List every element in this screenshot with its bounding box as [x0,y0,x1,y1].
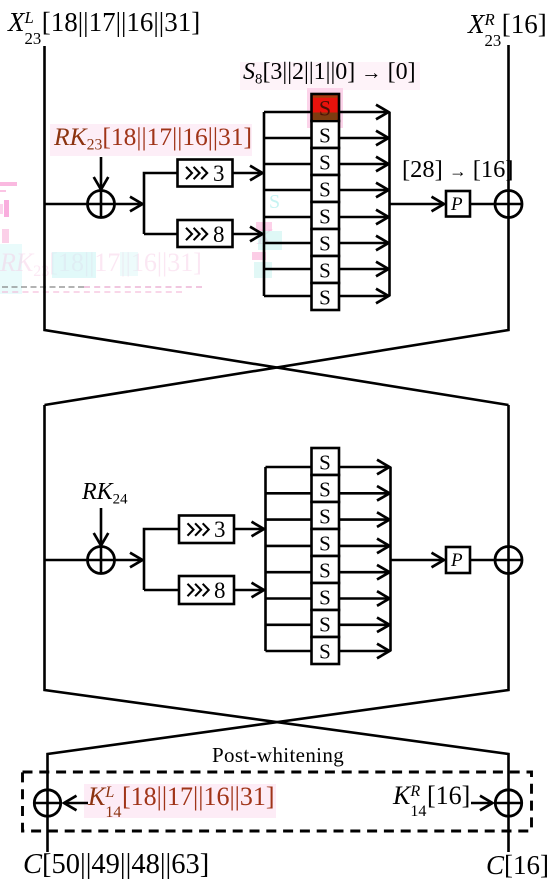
wire sbox row 1 out arrow round1 [339,111,389,114]
svg-text:S: S [319,286,331,310]
wire sbox row 4 in round2 [266,545,312,548]
box P round1 [446,191,470,217]
ghost artifact pink tick [0,190,6,192]
wire sbox row 7 in round2 [266,623,312,626]
svg-text:S: S [319,151,331,175]
svg-text:S: S [319,586,331,610]
svg-text:S: S [319,532,331,556]
label C right output [486,852,549,879]
wire sbox row 3 in round1 [264,163,312,166]
wire round1 main row through xor [45,203,115,206]
wire rot8 to sbus round1 [233,233,263,236]
sbox S13 round2 [312,556,340,583]
pink halo around red S box [307,88,343,128]
svg-text:S: S [319,96,331,121]
pink banding behind S8 label [240,62,420,90]
wire bracket to P round2 [391,559,445,562]
wire round2 branch vertical [144,529,179,590]
ghost text row pink RK[18||17||16||31] [0,250,202,276]
wire sbox row 5 in round1 [264,216,312,219]
wire round2 xor to branch arrow [115,559,143,562]
wire round2 key arrow through xor [100,546,103,574]
svg-text:S: S [319,613,331,637]
wire right vertical round2 + cross diagonal to bottom left [48,405,509,852]
wire sbox row 2 in round2 [266,492,312,495]
xor round1 left [88,191,115,218]
svg-text:S: S [319,478,331,502]
svg-text:S: S [319,640,331,664]
wire rot3 to sbus round2 [234,528,264,531]
ghost cyan S near bus [269,192,280,212]
sbox S10 round2 [312,475,340,502]
pink banding behind RK23 label [50,124,252,156]
wire sbox row 5 in round2 [266,571,312,574]
wire sbox row 8 in round1 [264,295,312,298]
svg-text:S: S [319,205,331,229]
sbox S16 round2 [312,637,340,664]
sbox S11 round2 [312,502,340,529]
wire sbox row 6 out arrow round2 [339,597,390,600]
wire sbox row 7 out arrow round2 [339,623,390,626]
box rot3 round2 [179,516,234,544]
sbox S14 round2 [312,583,340,610]
wire sbox row 8 out arrow round1 [339,295,389,298]
label RK24 round key [82,480,128,504]
wire sbox row 4 out arrow round2 [339,545,390,548]
label S8 sbox mapping [243,60,416,84]
pink banding behind KL14 label [84,784,276,818]
box rot3 round1 [178,160,233,187]
wire sbox left bus round2 [264,467,267,651]
wire sbox row 3 in round2 [266,518,312,521]
sbox S15 round2 [312,610,340,637]
box P round2 [446,547,470,573]
dashed post-whitening box [23,772,532,831]
dark band bottom of red sbox [313,113,338,121]
xor round2 left [88,547,115,574]
box rot8 round1 [178,220,233,247]
xor post-whitening left [34,790,60,816]
ghost pink+cyan blob near bus at rrr8 arrow [256,222,272,231]
wire sbox row 7 in round1 [264,268,312,271]
xor post-whitening right [495,790,521,816]
wire bracket to P round1 [390,203,445,206]
box rot8 round2 [179,576,234,604]
wire sbox row 3 out arrow round2 [339,518,390,521]
wire P to xor round2 [470,559,522,562]
wire sbox row 4 in round1 [264,189,312,192]
rot8 chevrons round2 [188,584,209,596]
rot3 chevrons round2 [188,523,209,535]
wire sbox row 6 in round2 [266,597,312,600]
sbox S8 round1 [312,283,340,310]
wire sbox row 7 out arrow round1 [339,268,389,271]
label rot3 amount round2 [214,518,226,541]
wire round1 key down arrow [100,157,103,190]
wire rot8 to sbus round2 [234,589,264,592]
wire sbox row 1 in round2 [266,466,312,469]
wire sbox row 8 out arrow round2 [339,650,390,653]
label KR14 whitening key [393,783,470,809]
sbox S9 round2 [312,448,340,475]
sbox S2 round1 [312,121,340,148]
wire sbox left bus round1 [263,112,266,296]
wire round2 branch to rot8 [144,589,179,592]
label 28 to 16 [402,158,514,183]
label C left output [23,851,209,880]
ghost artifact pink vertical bar [4,200,9,217]
wire sbox row 5 out arrow round1 [339,216,389,219]
svg-text:S: S [319,232,331,256]
ghost artifact pink bar left margin [0,182,17,186]
ghost dashed dark row [2,286,84,288]
wire KL14 arrow to left xor [64,802,88,805]
wire sbox row 3 out arrow round1 [339,163,389,166]
label Post-whitening [212,745,344,766]
ghost pink K near bus [257,226,272,248]
rot8 chevrons round1 [186,228,207,240]
label P round1 [451,195,463,214]
svg-text:S: S [319,259,331,283]
ghost cyan patches over ghost text [52,252,96,278]
sbox S6 round1 [312,229,340,256]
wire round1 xor to branch arrow [115,203,143,206]
label rot8 amount round2 [214,579,226,602]
wire sbox row 1 out arrow round2 [339,466,390,469]
sbox S12 round2 [312,529,340,556]
wire through left post xor [34,802,61,805]
svg-text:S: S [319,124,331,148]
ghost cyan band far left [0,244,22,294]
label P round2 [451,551,463,570]
wire sbox row 2 out arrow round1 [339,137,389,140]
label KL14 whitening key red [88,784,275,810]
wire KR14 arrow to right xor [471,802,493,805]
wire sbox right bracket round2 [389,467,392,651]
wire round1 branch to rot8 [144,233,178,236]
svg-text:S: S [319,559,331,583]
svg-text:S: S [319,178,331,202]
wire sbox row 8 in round2 [266,650,312,653]
xor round1 right [495,191,522,218]
node label X23L top left [8,9,200,36]
wire P to xor round1 [470,203,522,206]
wire sbox row 6 out arrow round1 [339,242,389,245]
wire sbox right bracket round1 [388,112,391,296]
wire right vertical round1 + cross diagonal [45,45,509,405]
olive top edge of red sbox [313,96,338,98]
wire round1 key arrow through xor [100,190,103,218]
wire left vertical round2 + cross diagonal to bottom right [45,405,509,852]
sbox S1 round1 [312,94,340,121]
svg-text:S: S [319,505,331,529]
sbox S7 round1 [312,256,340,283]
sbox S5 round1 [312,202,340,229]
node label X23R top right [468,11,547,38]
wire sbox row 2 in round1 [264,137,312,140]
wire sbox row 4 out arrow round1 [339,189,389,192]
xor round2 right [495,547,522,574]
wire round2 main row through xor [45,559,115,562]
label rot8 amount round1 [213,223,225,246]
label rot3 amount round1 [213,162,225,185]
wire through right post xor [495,802,522,805]
wire sbox row 5 out arrow round2 [339,571,390,574]
ghost artifact pink marks [2,229,9,243]
sbox S3 round1 [312,148,340,175]
wire sbox row 2 out arrow round2 [339,492,390,495]
wire round1 branch vertical [144,173,178,234]
label RK23 round key red [54,124,252,150]
wire sbox row 1 in round1 [264,111,312,114]
wire sbox row 6 in round1 [264,242,312,245]
wire rot3 to sbus round1 [233,172,263,175]
rot3 chevrons round1 [186,167,207,179]
wire left vertical round1 + cross diagonal [45,46,509,405]
sbox S4 round1 [312,175,340,202]
svg-text:S: S [319,451,331,475]
wire round2 key down arrow [100,508,103,546]
